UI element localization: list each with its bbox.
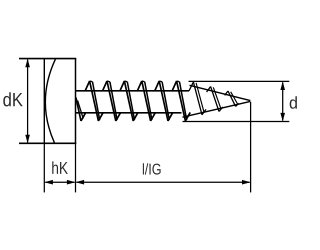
l/IG arrowhead left xyxy=(76,180,85,185)
d arrowhead down xyxy=(280,113,285,122)
head top line / dK top extension line xyxy=(19,58,76,60)
hK arrowhead right xyxy=(67,180,76,185)
hK right / l-IG left extension line xyxy=(75,143,77,192)
hK arrowhead left xyxy=(44,180,53,185)
screw point cone bottom silhouette xyxy=(183,101,251,117)
d bottom extension line xyxy=(183,121,290,123)
d top extension line xyxy=(189,80,290,82)
partial first thread crest at head junction xyxy=(76,98,81,122)
dK arrowhead down xyxy=(25,135,30,144)
taper thread turn 2 xyxy=(207,87,211,93)
d dimension line xyxy=(282,82,284,120)
label dK xyxy=(3,92,23,106)
thread root line bottom xyxy=(76,112,182,114)
dK dimension line xyxy=(27,60,29,143)
thread turn 4: crest flank + helix band xyxy=(137,81,142,91)
head right edge (bearing face) xyxy=(75,58,77,144)
taper thread turn 1 xyxy=(189,82,193,91)
dK arrowhead up xyxy=(25,59,30,68)
taper thread turn 3 xyxy=(225,91,228,95)
thread turn 2: crest flank + helix band xyxy=(102,81,107,91)
thread turn 1: crest flank + helix band xyxy=(85,81,90,91)
l/IG dimension line xyxy=(77,181,250,183)
label hK xyxy=(52,161,68,174)
thread turn 6: crest flank + helix band xyxy=(172,81,177,91)
hK dimension line xyxy=(45,181,74,183)
label l/IG xyxy=(143,163,161,174)
screw point cone top silhouette xyxy=(190,85,251,100)
hK left extension line xyxy=(43,143,45,192)
l/IG arrowhead right xyxy=(242,180,251,185)
head dome arc xyxy=(45,59,55,143)
label d xyxy=(290,96,297,109)
d arrowhead up xyxy=(280,81,285,90)
thread root line top xyxy=(76,90,190,92)
thread turn 5: crest flank + helix band xyxy=(155,81,160,91)
head left edge (front face) xyxy=(43,58,45,144)
head bottom line / dK bottom extension line xyxy=(19,142,76,144)
thread turn 3: crest flank + helix band xyxy=(120,81,125,91)
l-IG right extension line xyxy=(250,102,252,193)
